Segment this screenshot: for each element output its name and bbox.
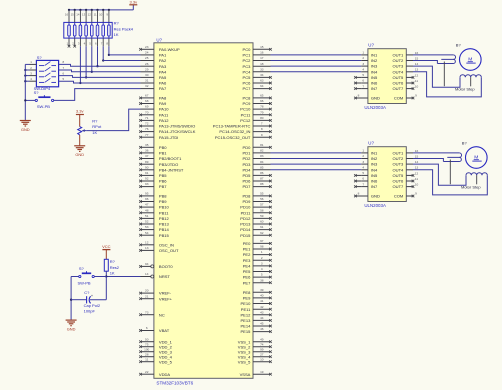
svg-text:OUT2: OUT2 (393, 156, 405, 161)
svg-text:2: 2 (362, 154, 364, 158)
svg-text:IN6: IN6 (371, 179, 378, 184)
svg-text:55: 55 (260, 192, 264, 196)
svg-text:98: 98 (260, 245, 264, 249)
svg-text:PE3: PE3 (243, 258, 251, 263)
svg-text:69: 69 (145, 105, 149, 109)
svg-text:PD8: PD8 (243, 194, 252, 199)
svg-text:PD10: PD10 (240, 205, 251, 210)
svg-text:PA11: PA11 (159, 112, 169, 117)
svg-text:34: 34 (260, 73, 264, 77)
svg-text:79: 79 (260, 110, 264, 114)
svg-text:PC8: PC8 (243, 96, 252, 101)
svg-text:9: 9 (415, 93, 417, 97)
svg-text:61: 61 (260, 225, 264, 229)
svg-text:10: 10 (99, 12, 103, 16)
svg-text:PD0: PD0 (243, 145, 252, 150)
svg-text:IN2: IN2 (371, 58, 378, 63)
svg-text:58: 58 (260, 208, 264, 212)
svg-text:2: 2 (261, 256, 263, 260)
svg-text:37: 37 (145, 154, 149, 158)
svg-text:PE2: PE2 (243, 252, 251, 257)
svg-text:10: 10 (260, 357, 264, 361)
svg-text:21: 21 (145, 294, 149, 298)
svg-text:9: 9 (261, 133, 263, 137)
svg-text:41: 41 (260, 299, 264, 303)
svg-text:NC: NC (159, 312, 165, 317)
svg-text:GND: GND (371, 96, 380, 101)
svg-text:OSC_IN: OSC_IN (159, 242, 174, 247)
svg-text:92: 92 (145, 177, 149, 181)
svg-text:12: 12 (88, 12, 92, 16)
svg-text:88: 88 (260, 182, 264, 186)
svg-text:10: 10 (415, 183, 419, 187)
svg-text:PE12: PE12 (240, 312, 251, 317)
svg-text:Cap Pol2: Cap Pol2 (84, 303, 101, 308)
svg-text:OSC_OUT: OSC_OUT (159, 248, 179, 253)
svg-text:PA8: PA8 (159, 96, 167, 101)
svg-text:5: 5 (261, 273, 263, 277)
svg-text:1: 1 (362, 149, 364, 153)
svg-text:100pF: 100pF (84, 309, 96, 314)
svg-text:U?: U? (156, 37, 162, 42)
svg-text:PB2/BOOT1: PB2/BOOT1 (159, 156, 182, 161)
svg-text:PE7: PE7 (243, 280, 251, 285)
svg-text:80: 80 (260, 116, 264, 120)
svg-text:7: 7 (362, 84, 364, 88)
svg-text:6: 6 (362, 177, 364, 181)
svg-text:GND: GND (21, 127, 30, 132)
svg-text:IN1: IN1 (371, 151, 378, 156)
svg-text:PD11: PD11 (241, 210, 252, 215)
svg-text:PB9: PB9 (159, 199, 167, 204)
svg-text:PB7: PB7 (159, 184, 167, 189)
svg-text:Motor Step: Motor Step (455, 87, 475, 92)
svg-text:IN6: IN6 (371, 81, 378, 86)
svg-text:8: 8 (261, 127, 263, 131)
svg-text:PD7: PD7 (243, 184, 252, 189)
svg-text:24: 24 (145, 51, 149, 55)
svg-text:13: 13 (415, 166, 419, 170)
svg-text:ULN2003A: ULN2003A (364, 203, 386, 208)
svg-text:70: 70 (145, 110, 149, 114)
svg-text:PE15: PE15 (240, 329, 251, 334)
svg-text:PA7: PA7 (159, 86, 167, 91)
svg-text:5: 5 (362, 171, 364, 175)
svg-text:86: 86 (260, 171, 264, 175)
svg-text:53: 53 (145, 225, 149, 229)
svg-text:83: 83 (260, 154, 264, 158)
svg-text:99: 99 (260, 347, 264, 351)
svg-text:PC1: PC1 (243, 53, 252, 58)
svg-text:OUT5: OUT5 (393, 75, 405, 80)
svg-text:R?: R? (114, 21, 120, 26)
svg-text:R?: R? (110, 259, 116, 264)
svg-text:91: 91 (145, 171, 149, 175)
svg-text:17: 17 (260, 56, 264, 60)
svg-text:73: 73 (145, 310, 149, 314)
svg-text:VDDA: VDDA (159, 372, 171, 377)
svg-text:OUT7: OUT7 (393, 184, 405, 189)
svg-text:PC7: PC7 (243, 86, 252, 91)
svg-text:13: 13 (415, 68, 419, 72)
svg-text:PA13-JTMS/SWDIO: PA13-JTMS/SWDIO (159, 124, 195, 129)
svg-text:PB4-JNTRST: PB4-JNTRST (159, 167, 184, 172)
svg-text:COM: COM (394, 96, 404, 101)
svg-text:PD6: PD6 (243, 179, 252, 184)
svg-text:90: 90 (145, 165, 149, 169)
svg-text:16: 16 (415, 51, 419, 55)
svg-text:PE6: PE6 (243, 275, 251, 280)
svg-text:63: 63 (260, 79, 264, 83)
svg-text:PA9: PA9 (159, 101, 167, 106)
svg-text:IN4: IN4 (371, 167, 378, 172)
svg-text:PE11: PE11 (241, 307, 251, 312)
svg-text:PB8: PB8 (159, 194, 167, 199)
svg-text:15: 15 (415, 154, 419, 158)
svg-text:20: 20 (145, 289, 149, 293)
svg-text:IN2: IN2 (371, 156, 378, 161)
svg-text:SW-PB: SW-PB (78, 280, 91, 285)
svg-text:PB0: PB0 (159, 145, 167, 150)
svg-text:PB1: PB1 (159, 151, 167, 156)
svg-text:PA14-JTCK/SWCLK: PA14-JTCK/SWCLK (159, 129, 196, 134)
svg-text:PC14-OSC32_IN: PC14-OSC32_IN (219, 129, 250, 134)
svg-text:64: 64 (260, 84, 264, 88)
svg-text:PC12: PC12 (240, 118, 251, 123)
svg-text:3: 3 (362, 62, 364, 66)
svg-text:85: 85 (260, 165, 264, 169)
svg-text:16: 16 (415, 149, 419, 153)
svg-text:IN3: IN3 (371, 64, 378, 69)
svg-text:1: 1 (261, 250, 263, 254)
svg-text:6: 6 (146, 326, 148, 330)
svg-text:23: 23 (145, 45, 149, 49)
svg-text:PA12: PA12 (159, 118, 169, 123)
svg-text:13: 13 (145, 246, 149, 250)
svg-text:SW-PB: SW-PB (37, 104, 50, 109)
svg-text:5: 5 (362, 73, 364, 77)
svg-text:IN5: IN5 (371, 75, 378, 80)
svg-text:3.3v: 3.3v (76, 109, 84, 114)
svg-text:PA15-JTDI: PA15-JTDI (159, 135, 179, 140)
svg-text:OUT7: OUT7 (393, 86, 405, 91)
svg-text:65: 65 (260, 94, 264, 98)
svg-text:96: 96 (145, 197, 149, 201)
svg-text:14: 14 (76, 12, 80, 16)
svg-text:12: 12 (145, 240, 149, 244)
svg-text:27: 27 (260, 352, 264, 356)
svg-text:71: 71 (145, 116, 149, 120)
svg-text:11: 11 (415, 177, 418, 181)
svg-text:OUT3: OUT3 (393, 162, 405, 167)
svg-text:PA6: PA6 (159, 81, 167, 86)
svg-text:50: 50 (145, 337, 149, 341)
svg-text:16: 16 (260, 51, 264, 55)
svg-text:PB5: PB5 (159, 173, 167, 178)
svg-text:PC0: PC0 (243, 47, 252, 52)
svg-text:PA0-WKUP: PA0-WKUP (159, 47, 180, 52)
svg-text:15: 15 (71, 12, 75, 16)
svg-text:PD9: PD9 (243, 199, 252, 204)
svg-text:9: 9 (415, 191, 417, 195)
svg-text:77: 77 (145, 133, 149, 137)
svg-text:BOOT0: BOOT0 (159, 264, 173, 269)
svg-text:4: 4 (362, 68, 364, 72)
svg-text:45: 45 (260, 322, 264, 326)
svg-text:PB13: PB13 (159, 222, 170, 227)
svg-text:PC2: PC2 (243, 58, 252, 63)
svg-text:PE10: PE10 (240, 301, 251, 306)
svg-text:76: 76 (145, 127, 149, 131)
svg-text:1K: 1K (92, 130, 97, 135)
svg-text:66: 66 (260, 99, 264, 103)
svg-text:14: 14 (145, 272, 149, 276)
svg-text:51: 51 (145, 214, 149, 218)
svg-text:VSS_5: VSS_5 (238, 359, 251, 364)
svg-text:VREF-: VREF- (159, 291, 172, 296)
svg-text:89: 89 (145, 160, 149, 164)
svg-text:1K: 1K (110, 271, 115, 276)
svg-text:RPot: RPot (92, 124, 102, 129)
svg-text:54: 54 (145, 231, 149, 235)
svg-text:S?: S? (79, 266, 85, 271)
svg-text:68: 68 (145, 99, 149, 103)
svg-text:PD2: PD2 (243, 156, 252, 161)
svg-text:42: 42 (260, 305, 264, 309)
svg-text:29: 29 (145, 67, 149, 71)
svg-text:PB14: PB14 (159, 227, 170, 232)
svg-text:Res Pack4: Res Pack4 (114, 26, 134, 31)
svg-text:12: 12 (415, 171, 419, 175)
svg-text:IN7: IN7 (371, 184, 378, 189)
svg-text:PA10: PA10 (159, 107, 169, 112)
svg-text:PD15: PD15 (240, 233, 251, 238)
svg-text:PA1: PA1 (159, 53, 167, 58)
svg-text:PB10: PB10 (159, 205, 170, 210)
svg-text:OUT6: OUT6 (393, 179, 405, 184)
svg-text:10: 10 (415, 85, 419, 89)
svg-text:14: 14 (415, 62, 419, 66)
svg-text:OUT1: OUT1 (393, 53, 405, 58)
svg-text:72: 72 (145, 122, 149, 126)
svg-text:31: 31 (145, 79, 149, 83)
svg-text:OUT1: OUT1 (393, 151, 405, 156)
svg-text:18: 18 (260, 62, 264, 66)
svg-text:IN7: IN7 (371, 86, 378, 91)
svg-text:8: 8 (358, 191, 360, 195)
svg-text:57: 57 (260, 203, 264, 207)
svg-text:PD4: PD4 (243, 167, 252, 172)
svg-text:74: 74 (260, 342, 264, 346)
svg-text:OUT6: OUT6 (393, 81, 405, 86)
svg-text:94: 94 (145, 262, 149, 266)
svg-text:8: 8 (358, 93, 360, 97)
svg-text:IN3: IN3 (371, 162, 378, 167)
svg-text:PA2: PA2 (159, 58, 167, 63)
svg-text:44: 44 (260, 316, 264, 320)
svg-text:PE0: PE0 (243, 241, 251, 246)
svg-text:4: 4 (261, 267, 263, 271)
svg-text:OUT5: OUT5 (393, 173, 405, 178)
svg-text:60: 60 (260, 220, 264, 224)
svg-text:38: 38 (260, 278, 264, 282)
svg-text:33: 33 (260, 67, 264, 71)
svg-text:PD3: PD3 (243, 162, 252, 167)
svg-text:2: 2 (362, 56, 364, 60)
svg-text:56: 56 (260, 197, 264, 201)
svg-text:28: 28 (145, 352, 149, 356)
svg-text:67: 67 (145, 94, 149, 98)
svg-text:IN1: IN1 (371, 53, 378, 58)
svg-text:81: 81 (260, 143, 264, 147)
svg-text:PE4: PE4 (243, 264, 251, 269)
svg-text:U?: U? (368, 141, 374, 146)
svg-text:PA3: PA3 (159, 64, 167, 69)
svg-text:82: 82 (260, 149, 264, 153)
svg-text:PA5: PA5 (159, 75, 167, 80)
svg-text:32: 32 (145, 84, 149, 88)
svg-text:12: 12 (415, 73, 419, 77)
svg-text:PC11: PC11 (241, 112, 252, 117)
svg-text:40: 40 (260, 294, 264, 298)
svg-text:87: 87 (260, 177, 264, 181)
svg-text:VREF+: VREF+ (159, 296, 173, 301)
svg-text:11: 11 (145, 357, 148, 361)
svg-text:PC6: PC6 (243, 81, 252, 86)
svg-text:NRST: NRST (159, 274, 171, 279)
svg-text:PE8: PE8 (243, 290, 251, 295)
svg-text:62: 62 (260, 231, 264, 235)
svg-text:11: 11 (415, 79, 418, 83)
svg-text:52: 52 (145, 220, 149, 224)
svg-text:3.3v: 3.3v (130, 0, 138, 4)
svg-text:25: 25 (145, 56, 149, 60)
svg-text:93: 93 (145, 182, 149, 186)
svg-text:16: 16 (65, 12, 69, 16)
svg-text:3: 3 (362, 160, 364, 164)
svg-text:PE13: PE13 (240, 318, 251, 323)
svg-text:PD14: PD14 (240, 227, 251, 232)
svg-text:VBAT: VBAT (159, 328, 170, 333)
svg-text:PC4: PC4 (243, 69, 252, 74)
svg-text:OUT3: OUT3 (393, 64, 405, 69)
svg-text:PB3/JTDO: PB3/JTDO (159, 162, 178, 167)
svg-text:S?: S? (37, 55, 43, 60)
svg-text:95: 95 (145, 192, 149, 196)
svg-text:PC13-TAMPER-RTC: PC13-TAMPER-RTC (213, 124, 251, 129)
svg-text:46: 46 (260, 327, 264, 331)
svg-text:7: 7 (362, 182, 364, 186)
svg-text:36: 36 (145, 149, 149, 153)
svg-text:COM: COM (394, 194, 404, 199)
svg-text:GND: GND (371, 194, 380, 199)
svg-text:48: 48 (145, 208, 149, 212)
svg-text:PB12: PB12 (159, 216, 170, 221)
svg-text:PB6: PB6 (159, 179, 167, 184)
svg-text:VDD_5: VDD_5 (159, 359, 173, 364)
svg-text:PE9: PE9 (243, 296, 251, 301)
svg-text:PC5: PC5 (243, 75, 252, 80)
svg-text:PD13: PD13 (240, 222, 251, 227)
svg-text:C?: C? (84, 290, 90, 295)
svg-text:14: 14 (415, 160, 419, 164)
svg-text:30: 30 (145, 73, 149, 77)
svg-text:Res2: Res2 (110, 265, 120, 270)
svg-text:PC3: PC3 (243, 64, 252, 69)
svg-text:GND: GND (75, 152, 84, 157)
svg-text:35: 35 (145, 143, 149, 147)
svg-text:7: 7 (261, 122, 263, 126)
svg-text:OUT4: OUT4 (393, 69, 405, 74)
svg-text:PD12: PD12 (240, 216, 251, 221)
svg-text:IN5: IN5 (371, 173, 378, 178)
svg-text:1K: 1K (114, 32, 119, 37)
svg-text:VSSA: VSSA (240, 372, 251, 377)
svg-text:97: 97 (260, 239, 264, 243)
svg-text:4: 4 (362, 166, 364, 170)
svg-text:ULN2003A: ULN2003A (364, 105, 386, 110)
svg-text:PD5: PD5 (243, 173, 252, 178)
svg-text:15: 15 (415, 56, 419, 60)
svg-text:S?: S? (34, 90, 40, 95)
svg-text:PB11: PB11 (159, 210, 169, 215)
svg-text:78: 78 (260, 105, 264, 109)
svg-text:Motor Step: Motor Step (461, 185, 481, 190)
svg-text:1: 1 (362, 51, 364, 55)
svg-text:75: 75 (145, 342, 149, 346)
svg-text:49: 49 (260, 337, 264, 341)
svg-text:VCC: VCC (102, 244, 111, 249)
svg-text:3: 3 (261, 262, 263, 266)
svg-text:B?: B? (456, 42, 462, 47)
svg-text:PE5: PE5 (243, 269, 251, 274)
svg-text:100: 100 (144, 347, 149, 351)
svg-text:11: 11 (94, 12, 97, 16)
svg-text:IN4: IN4 (371, 69, 378, 74)
svg-text:PE1: PE1 (243, 247, 251, 252)
svg-text:GND: GND (67, 326, 76, 331)
svg-text:PA4: PA4 (159, 69, 167, 74)
svg-text:R?: R? (92, 119, 98, 124)
svg-text:B?: B? (462, 140, 468, 145)
svg-text:43: 43 (260, 310, 264, 314)
svg-text:U?: U? (368, 43, 374, 48)
svg-text:39: 39 (260, 288, 264, 292)
svg-text:PE14: PE14 (240, 324, 251, 329)
svg-text:PC9: PC9 (243, 101, 252, 106)
svg-text:PD1: PD1 (243, 151, 252, 156)
svg-text:OUT4: OUT4 (393, 167, 405, 172)
svg-text:PB15: PB15 (159, 233, 170, 238)
svg-text:OUT2: OUT2 (393, 58, 405, 63)
svg-text:84: 84 (260, 160, 264, 164)
svg-text:STM32F103VBT6: STM32F103VBT6 (156, 381, 193, 386)
svg-text:PC10: PC10 (240, 107, 251, 112)
svg-text:15: 15 (260, 45, 264, 49)
svg-text:6: 6 (362, 79, 364, 83)
svg-text:13: 13 (82, 12, 86, 16)
svg-text:47: 47 (145, 203, 149, 207)
svg-text:26: 26 (145, 62, 149, 66)
svg-text:22: 22 (145, 370, 149, 374)
svg-text:PC15-OSC32_OUT: PC15-OSC32_OUT (215, 135, 251, 140)
svg-text:19: 19 (260, 370, 264, 374)
svg-text:59: 59 (260, 214, 264, 218)
